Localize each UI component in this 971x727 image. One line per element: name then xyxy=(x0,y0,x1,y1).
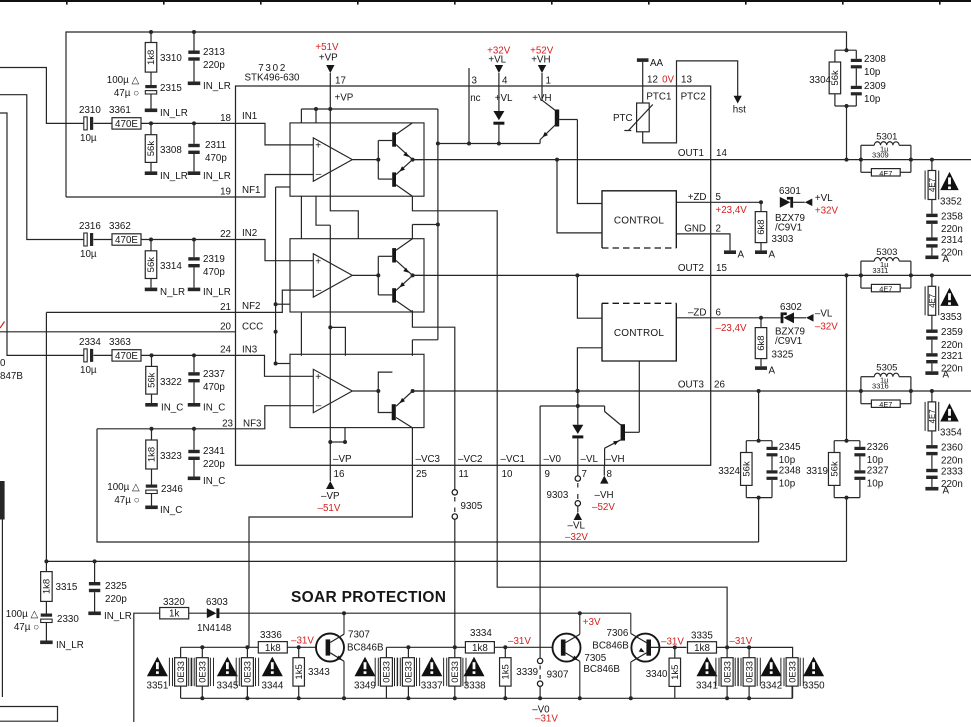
svg-text:5: 5 xyxy=(716,192,722,203)
pin 3 nc xyxy=(469,68,481,104)
svg-text:3339: 3339 xyxy=(516,667,538,678)
svg-text:2319: 2319 xyxy=(203,254,225,265)
warning triangle 3337 xyxy=(421,657,443,692)
capacitor 2319 470p xyxy=(188,240,225,288)
svg-text:19: 19 xyxy=(220,187,231,198)
label -V0 -31V xyxy=(532,705,558,725)
svg-text:2: 2 xyxy=(716,224,721,235)
svg-text:2315: 2315 xyxy=(160,83,182,94)
svg-text:2326: 2326 xyxy=(867,442,889,453)
svg-text:12: 12 xyxy=(647,74,658,85)
svg-text:20: 20 xyxy=(220,321,231,332)
snubber column 3354 / 2360 2333 220n xyxy=(925,391,963,496)
svg-text:+23,4V: +23,4V xyxy=(716,205,748,216)
svg-text:BC846B: BC846B xyxy=(592,641,629,652)
svg-text:3323: 3323 xyxy=(160,451,182,462)
svg-text:2310: 2310 xyxy=(79,105,101,116)
svg-text:1k5: 1k5 xyxy=(670,665,681,680)
label -31V (group2) xyxy=(508,636,531,647)
svg-text:–VC2: –VC2 xyxy=(458,454,483,465)
diode 6305 (+VL) xyxy=(493,86,504,144)
wire pin3 nc drop xyxy=(468,86,470,144)
ground IN_LR (below 3308) xyxy=(145,171,188,182)
svg-text:4E7: 4E7 xyxy=(879,169,892,178)
label -31V (group3) xyxy=(729,636,752,647)
svg-text:+3V: +3V xyxy=(583,617,601,628)
svg-text:/C9V1: /C9V1 xyxy=(775,223,802,234)
wire cell2 PNP collector to pin 11 (-VC2) xyxy=(412,310,482,480)
svg-text:–V0: –V0 xyxy=(544,454,562,465)
svg-text:A: A xyxy=(769,366,776,377)
svg-text:2316: 2316 xyxy=(79,221,101,232)
ground IN_LR (below 2313) xyxy=(188,81,231,92)
svg-text:3309: 3309 xyxy=(872,150,889,159)
svg-text:7305: 7305 xyxy=(584,653,606,664)
svg-text:2358: 2358 xyxy=(941,211,963,222)
svg-text:/C9V1: /C9V1 xyxy=(775,336,802,347)
svg-text:3335: 3335 xyxy=(691,631,713,642)
svg-text:9: 9 xyxy=(545,469,550,480)
svg-text:3344: 3344 xyxy=(262,681,284,692)
svg-text:+VL: +VL xyxy=(815,193,833,204)
wire inter-cell bias feeds xyxy=(301,196,345,428)
resistor 3362 470E xyxy=(109,221,141,246)
ground A (3303) xyxy=(755,250,776,261)
warning triangle 3338 xyxy=(464,657,487,692)
svg-text:3304: 3304 xyxy=(809,75,831,86)
wire +VC supply (y143.5) xyxy=(438,142,540,146)
label -31V (3340) xyxy=(661,637,684,648)
wire SOAR base bus group 1 xyxy=(181,645,259,649)
warning triangle 3341 xyxy=(696,657,718,692)
svg-text:–VH: –VH xyxy=(606,454,625,465)
warning triangle 3351 xyxy=(147,657,169,692)
svg-text:6: 6 xyxy=(716,307,722,318)
transistor 7307 BC846B xyxy=(316,613,384,698)
capacitor 2311 470p xyxy=(188,123,227,171)
wire NF1 to cell1 - xyxy=(236,175,314,198)
svg-text:2360: 2360 xyxy=(941,443,963,454)
wire cell3 PNP collector to pin 25 (-VC3) xyxy=(249,428,441,648)
svg-text:CONTROL: CONTROL xyxy=(614,328,665,339)
svg-text:3351: 3351 xyxy=(147,681,169,692)
pin 12 / 0V / 13 labels xyxy=(647,74,692,85)
wire IN1 input from left edge xyxy=(0,68,84,124)
svg-text:10µ: 10µ xyxy=(80,365,97,376)
wire +VP internal rail xyxy=(301,86,438,239)
svg-text:2314: 2314 xyxy=(941,235,963,246)
svg-text:6303: 6303 xyxy=(206,597,228,608)
wire OUT1 row xyxy=(413,148,971,162)
svg-text:–: – xyxy=(316,401,322,412)
wire -V0 node xyxy=(540,404,605,480)
power +VL pin 4 xyxy=(487,46,513,105)
svg-text:N_LR: N_LR xyxy=(160,287,185,298)
svg-text:1k8: 1k8 xyxy=(694,643,710,654)
svg-text:CONTROL: CONTROL xyxy=(614,216,665,227)
power -VL arrow xyxy=(565,512,588,543)
svg-text:nc: nc xyxy=(470,93,480,104)
svg-text:3314: 3314 xyxy=(160,261,182,272)
svg-text:10p: 10p xyxy=(867,478,884,489)
svg-text:470p: 470p xyxy=(203,267,225,278)
snubber column 3353 / 2359 2321 220n xyxy=(925,275,963,380)
snubber column 3352 / 2358 2314 220n xyxy=(925,160,963,265)
wire IN3 row to IC pin 24 xyxy=(141,353,236,357)
pin 19 NF1 wire xyxy=(66,185,261,198)
wire control1 input from Q+VH base xyxy=(577,120,602,204)
svg-text:1k: 1k xyxy=(169,609,179,620)
wire IN3 to cell3 + xyxy=(236,355,314,376)
svg-text:4: 4 xyxy=(502,76,508,87)
svg-text:4E7: 4E7 xyxy=(928,178,937,192)
svg-text:–VC1: –VC1 xyxy=(501,454,526,465)
svg-text:AA: AA xyxy=(650,58,664,69)
svg-text:56k: 56k xyxy=(147,372,158,388)
svg-text:10p: 10p xyxy=(864,67,881,78)
wire 3336 to 7307 base xyxy=(287,645,316,649)
wire IN1 row to IC pin 18 xyxy=(141,121,236,125)
svg-text:A: A xyxy=(738,250,745,261)
svg-text:5303: 5303 xyxy=(876,247,897,258)
svg-text:14: 14 xyxy=(716,148,727,159)
label -31V (group1) xyxy=(291,636,314,647)
safety resistor 0E33 (g) xyxy=(716,647,738,698)
svg-text:+51V: +51V xyxy=(315,42,339,53)
wire pin 10 to SOAR group 3 xyxy=(497,465,727,647)
svg-text:470E: 470E xyxy=(115,351,138,362)
pin 23 NF3 wire xyxy=(97,418,262,430)
ground AA above pin 12 xyxy=(637,58,664,86)
wire SOAR bottom bus xyxy=(181,696,793,700)
jumper 9305 xyxy=(452,465,483,657)
wire OUT3 row xyxy=(413,380,971,394)
svg-text:3345: 3345 xyxy=(217,681,239,692)
svg-text:3341: 3341 xyxy=(696,681,718,692)
node cut label (left edge) xyxy=(0,322,23,383)
feedback network 3324 56k / 2345 2348 10p xyxy=(718,391,801,542)
svg-text:3322: 3322 xyxy=(160,377,182,388)
safety resistor 0E33 (c) xyxy=(236,647,258,698)
capacitor 2310 10u xyxy=(79,105,112,144)
op-amp cell 1 (IN1/NF1) xyxy=(290,123,424,196)
svg-text:+VP: +VP xyxy=(319,53,338,64)
resistor 3340 1k5 xyxy=(646,645,681,698)
svg-text:OUT3: OUT3 xyxy=(678,380,705,391)
svg-text:17: 17 xyxy=(335,76,346,87)
svg-text:–VP: –VP xyxy=(333,454,352,465)
svg-text:0E33: 0E33 xyxy=(404,661,414,683)
ground IN_C (below 2341) xyxy=(188,476,226,487)
svg-text:–: – xyxy=(316,169,322,180)
op-amp cell 2 (IN2/NF2) xyxy=(290,239,424,312)
svg-text:7307: 7307 xyxy=(348,630,370,641)
svg-text:IN2: IN2 xyxy=(242,228,257,239)
label SOAR PROTECTION xyxy=(291,589,446,606)
svg-text:3350: 3350 xyxy=(803,681,825,692)
wire control1 input from OUT1 xyxy=(557,160,602,233)
wire NF2 to cell2 - xyxy=(236,290,314,312)
wire -VP collection below cell3 xyxy=(328,428,347,466)
svg-text:–51V: –51V xyxy=(318,503,341,514)
svg-text:3363: 3363 xyxy=(109,337,131,348)
capacitor 2341 220p xyxy=(188,429,225,477)
inductor 5301 / resistor 3309 4E7 xyxy=(861,131,911,178)
svg-text:–ZD: –ZD xyxy=(688,307,707,318)
svg-text:IN_C: IN_C xyxy=(203,403,225,414)
jumper 9303 xyxy=(547,465,581,512)
svg-text:10p: 10p xyxy=(779,478,796,489)
capacitor 2313 220p xyxy=(188,32,225,82)
svg-text:3361: 3361 xyxy=(109,105,131,116)
svg-text:470p: 470p xyxy=(205,153,227,164)
svg-text:IN_C: IN_C xyxy=(203,476,225,487)
svg-text:–23,4V: –23,4V xyxy=(716,323,748,334)
capacitor 2330 electrolytic xyxy=(6,609,80,641)
svg-text:3320: 3320 xyxy=(163,597,185,608)
resistor 3336 1k8 xyxy=(258,630,287,654)
svg-text:23: 23 xyxy=(222,418,233,429)
safety resistor 0E33 (a) xyxy=(169,647,191,698)
svg-text:56k: 56k xyxy=(830,70,841,86)
wire VC chain x438 xyxy=(412,109,440,356)
svg-text:IN_C: IN_C xyxy=(161,403,183,414)
svg-text:–VL: –VL xyxy=(815,309,833,320)
svg-text:GND: GND xyxy=(684,224,706,235)
svg-text:0E33: 0E33 xyxy=(722,661,732,683)
svg-text:4E7: 4E7 xyxy=(879,285,892,294)
resistor 3314 56k xyxy=(145,240,182,288)
svg-text:2321: 2321 xyxy=(941,351,963,362)
svg-text:56k: 56k xyxy=(829,461,840,477)
inductor 5303 / resistor 3311 4E7 xyxy=(861,247,911,294)
pin 18 IN1 xyxy=(220,111,257,124)
svg-text:PTC1: PTC1 xyxy=(646,91,671,102)
svg-text:2333: 2333 xyxy=(941,466,963,477)
diode 6303 1N4148 xyxy=(189,597,232,634)
resistor 3325 6k8 xyxy=(755,318,794,367)
wire pin 9 to jumper 9307 xyxy=(539,465,541,658)
zener diode 6302 BZX79/C9V1 xyxy=(759,302,838,347)
wire OUT2 row xyxy=(413,263,971,277)
ground IN_LR (below 2330) xyxy=(40,640,84,651)
diode 6304 (-VL internal) xyxy=(572,389,598,480)
svg-text:A: A xyxy=(943,370,950,381)
label +3V xyxy=(583,617,601,628)
wire GND pin 2 xyxy=(676,224,730,251)
svg-text:6k8: 6k8 xyxy=(756,219,767,234)
svg-text:3336: 3336 xyxy=(260,630,282,641)
capacitor 2315 electrolytic xyxy=(107,75,183,109)
svg-text:3340: 3340 xyxy=(646,669,668,680)
safety resistor 0E33 (d) xyxy=(375,647,397,698)
svg-text:470E: 470E xyxy=(115,119,138,130)
svg-text:2311: 2311 xyxy=(205,140,226,151)
wire NF3 feedback loop (left drop and bottom run) xyxy=(97,429,759,542)
svg-text:2348: 2348 xyxy=(779,465,801,476)
resistor 3308 56k xyxy=(145,123,182,171)
safety resistor 0E33 (e) xyxy=(397,647,419,698)
jumper 9307 xyxy=(537,658,568,698)
svg-text:4E7: 4E7 xyxy=(928,294,937,308)
svg-text:9305: 9305 xyxy=(461,501,483,512)
svg-text:–VC3: –VC3 xyxy=(416,454,441,465)
svg-text:10p: 10p xyxy=(867,455,884,466)
svg-text:3310: 3310 xyxy=(160,53,182,64)
svg-text:–VL: –VL xyxy=(581,454,599,465)
svg-text:+ZD: +ZD xyxy=(688,192,707,203)
svg-text:2325: 2325 xyxy=(105,581,127,592)
svg-text:IN_LR: IN_LR xyxy=(160,171,188,182)
svg-text:–32V: –32V xyxy=(565,532,588,543)
wire IN2 to cell2 + xyxy=(236,240,314,261)
control block 1 xyxy=(602,191,676,248)
svg-text:9307: 9307 xyxy=(547,670,569,681)
svg-text:3354: 3354 xyxy=(940,428,962,439)
resistor 3310 1k8 xyxy=(145,32,182,85)
svg-text:470p: 470p xyxy=(203,382,225,393)
svg-text:2334: 2334 xyxy=(79,337,101,348)
wire +ZD pin 5 xyxy=(676,192,761,216)
svg-text:1: 1 xyxy=(546,76,551,87)
svg-text:1k5: 1k5 xyxy=(501,664,512,679)
svg-text:+VH: +VH xyxy=(531,55,550,66)
svg-text:hst: hst xyxy=(733,105,746,116)
transistor 7305 BC846B xyxy=(553,613,621,698)
svg-text:100µ △: 100µ △ xyxy=(6,609,39,620)
svg-text:5305: 5305 xyxy=(876,363,897,374)
svg-text:56k: 56k xyxy=(146,257,157,273)
svg-text:IN_LR: IN_LR xyxy=(203,287,231,298)
svg-text:3319: 3319 xyxy=(806,466,828,477)
svg-text:10µ: 10µ xyxy=(80,133,97,144)
feedback network 3319 56k / 2326 2327 10p xyxy=(806,275,889,561)
svg-text:+VP: +VP xyxy=(335,93,354,104)
svg-text:IN_LR: IN_LR xyxy=(203,81,231,92)
svg-text:3362: 3362 xyxy=(109,221,131,232)
svg-text:A: A xyxy=(943,485,950,496)
resistor 3343 1k5 xyxy=(293,647,330,698)
svg-text:1k5: 1k5 xyxy=(294,664,305,679)
resistor 3303 6k8 xyxy=(755,202,794,250)
control block 2 xyxy=(602,303,676,361)
svg-text:3334: 3334 xyxy=(470,628,492,639)
svg-text:3338: 3338 xyxy=(464,681,486,692)
wire NF3 to cell3 - xyxy=(236,406,314,429)
svg-text:6k8: 6k8 xyxy=(756,335,767,350)
label 7302 STK496-630 xyxy=(245,63,301,84)
svg-text:5301: 5301 xyxy=(876,131,897,142)
svg-text:18: 18 xyxy=(220,113,231,124)
svg-text:IN_C: IN_C xyxy=(160,505,182,516)
ground IN_LR (below 2319) xyxy=(188,287,231,298)
op-amp cell 3 (IN3/NF3) xyxy=(290,354,424,428)
svg-text:47µ ○: 47µ ○ xyxy=(14,622,39,633)
resistor 3320 1k xyxy=(160,597,189,620)
svg-text:IN_LR: IN_LR xyxy=(203,171,231,182)
svg-text:847B: 847B xyxy=(0,371,23,382)
wire NF2 feedback drop (x=46) xyxy=(45,312,47,561)
svg-text:IN_LR: IN_LR xyxy=(160,108,188,119)
wire control2 input from OUT3 xyxy=(575,348,602,393)
op-amp IC 7302 STK496-630 outline xyxy=(236,86,711,465)
svg-text:3337: 3337 xyxy=(421,681,443,692)
warning triangle 3345 xyxy=(217,657,239,692)
svg-text:3353: 3353 xyxy=(940,312,962,323)
svg-text:–31V: –31V xyxy=(291,636,314,647)
pin 24 IN3 xyxy=(220,345,258,356)
svg-text:A: A xyxy=(769,250,776,261)
svg-text:220n: 220n xyxy=(941,455,963,466)
wire SOAR base bus group 3 xyxy=(717,645,793,698)
svg-text:100µ △: 100µ △ xyxy=(107,482,140,493)
svg-text:2327: 2327 xyxy=(867,465,889,476)
svg-text:3303: 3303 xyxy=(772,234,794,245)
svg-text:+: + xyxy=(315,256,321,267)
wire CCC bus xyxy=(274,187,290,366)
svg-text:220p: 220p xyxy=(203,459,225,470)
svg-text:–31V: –31V xyxy=(729,636,752,647)
svg-text:2313: 2313 xyxy=(203,47,225,58)
safety resistor 0E33 (h) xyxy=(738,647,760,698)
svg-text:–VL: –VL xyxy=(568,521,586,532)
warning triangle 3349 xyxy=(354,657,376,692)
svg-text:–31V: –31V xyxy=(535,714,558,723)
resistor 3323 1k8 xyxy=(146,429,183,485)
svg-text:IN1: IN1 xyxy=(242,111,257,122)
svg-text:7306: 7306 xyxy=(607,628,629,639)
svg-text:2330: 2330 xyxy=(57,614,79,625)
svg-text:2337: 2337 xyxy=(203,369,225,380)
svg-text:0E33: 0E33 xyxy=(787,661,797,683)
svg-text:2309: 2309 xyxy=(864,81,886,92)
wire SOAR drive left drop xyxy=(134,613,160,722)
warning triangle 3342 xyxy=(760,657,782,692)
wire pin 13 to hst xyxy=(677,61,747,116)
power +VP pin 17 xyxy=(315,42,353,104)
svg-text:IN_LR: IN_LR xyxy=(56,640,84,651)
svg-text:220p: 220p xyxy=(105,594,127,605)
svg-text:–31V: –31V xyxy=(661,637,684,648)
svg-text:0V: 0V xyxy=(662,74,674,85)
capacitor 2337 470p xyxy=(188,355,225,403)
ground A (3325) xyxy=(755,366,776,377)
svg-text:6301: 6301 xyxy=(779,186,801,197)
safety resistor 0E33 (i) xyxy=(781,658,803,699)
svg-text:IN_LR: IN_LR xyxy=(104,611,132,622)
svg-text:15: 15 xyxy=(716,263,727,274)
svg-text:PTC2: PTC2 xyxy=(681,91,706,102)
svg-text:2345: 2345 xyxy=(779,442,801,453)
resistor 3335 1k8 xyxy=(688,631,717,654)
svg-text:1k8: 1k8 xyxy=(42,579,53,594)
svg-text:56k: 56k xyxy=(146,141,157,157)
safety resistor 0E33 (f) xyxy=(444,658,466,699)
svg-text:16: 16 xyxy=(334,469,345,480)
svg-text:9303: 9303 xyxy=(547,490,569,501)
svg-text:8: 8 xyxy=(607,469,613,480)
svg-text:STK496-630: STK496-630 xyxy=(245,73,301,84)
wire IN2 row to IC pin 22 xyxy=(141,238,236,242)
svg-text:7: 7 xyxy=(582,469,587,480)
svg-text:10µ: 10µ xyxy=(80,249,97,260)
svg-text:2341: 2341 xyxy=(203,446,225,457)
svg-text:–VH: –VH xyxy=(595,490,614,501)
svg-text:3352: 3352 xyxy=(940,196,962,207)
svg-text:100µ △: 100µ △ xyxy=(107,75,140,86)
wire NF1 feedback loop (top) xyxy=(66,30,847,197)
wire IN3 input from left edge xyxy=(0,113,84,355)
